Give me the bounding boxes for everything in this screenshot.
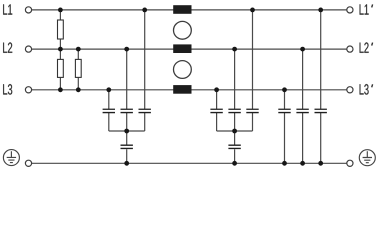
resistor R2 between L2 and L3 <box>58 59 64 77</box>
wire capacitor C11 column from L1 to ground <box>320 10 322 163</box>
label L3 <box>3 84 12 95</box>
wire star-point bus group 2 <box>217 130 253 132</box>
node L3 C5 junction <box>214 87 219 92</box>
resistor R1 between L1 and L2 <box>58 20 64 39</box>
node L1 C3 junction <box>142 7 147 12</box>
wire capacitor C9 column from L3 to ground <box>284 90 286 164</box>
wire PE ground bus horizontal <box>32 162 347 164</box>
wire resistor column x=60 from L1 to L3 <box>59 10 61 90</box>
node L1 resistor junction <box>58 7 63 12</box>
capacitor C4 plates <box>121 145 133 148</box>
node L3 R2 junction <box>58 87 63 92</box>
wire capacitor C7 column from L1 <box>252 10 254 131</box>
terminal L2' right <box>347 46 353 52</box>
node L2 C10 junction <box>300 47 305 52</box>
node L3 R3 junction <box>76 87 81 92</box>
node L2 C2 junction <box>124 47 129 52</box>
terminal PE left <box>25 160 31 166</box>
node ground C8 junction <box>232 161 237 166</box>
node ground C4 junction <box>124 161 129 166</box>
node star point group 1 <box>124 129 129 134</box>
label L1 <box>3 4 12 14</box>
capacitor C3 plates <box>139 109 151 112</box>
choke winding L3 phase <box>173 85 191 94</box>
node L1 C11 junction <box>318 7 323 12</box>
terminal L3' right <box>347 87 353 93</box>
choke core circle upper <box>174 21 192 39</box>
wire capacitor C2 column from L2 <box>126 49 128 131</box>
terminal L2 left <box>25 46 31 52</box>
node L2 R1 junction <box>58 47 63 52</box>
resistor R3 between L2 and L3 <box>75 59 81 77</box>
wire capacitor C4 column to ground <box>126 131 128 163</box>
node L3 C9 junction <box>282 87 287 92</box>
wire capacitor C8 column to ground <box>234 131 236 163</box>
wire capacitor C10 column from L2 to ground <box>302 49 304 163</box>
node ground C11 junction <box>318 161 323 166</box>
node L2 C6 junction <box>232 47 237 52</box>
wire capacitor C5 column from L3 <box>216 90 218 131</box>
label L3' <box>360 84 373 95</box>
ground symbol PE left <box>3 150 19 166</box>
label L2 <box>3 42 12 52</box>
capacitor C2 plates <box>121 109 133 112</box>
node L1 C7 junction <box>250 7 255 12</box>
wire resistor column x=78 from L2 to L3 <box>77 49 79 90</box>
label L2' <box>360 42 373 52</box>
capacitor C6 plates <box>228 109 240 112</box>
choke winding L2 phase <box>173 44 191 53</box>
node ground C10 junction <box>300 161 305 166</box>
terminal L1 left <box>25 7 31 13</box>
capacitor C1 plates <box>103 109 115 112</box>
wire capacitor C3 column from L1 <box>144 10 146 131</box>
wire capacitor C6 column from L2 <box>234 49 236 131</box>
capacitor C8 plates <box>228 145 240 148</box>
terminal PE' right <box>347 160 353 166</box>
node ground C9 junction <box>282 161 287 166</box>
wire star-point bus group 1 <box>109 130 145 132</box>
wire capacitor C1 column from L3 <box>108 90 110 131</box>
capacitor C10 plates <box>296 109 308 112</box>
capacitor C9 plates <box>278 109 290 112</box>
wire L1 horizontal <box>32 9 347 11</box>
node L3 C1 junction <box>106 87 111 92</box>
capacitor C11 plates <box>315 109 327 112</box>
label L1' <box>360 4 373 14</box>
node star point group 2 <box>232 129 237 134</box>
terminal L3 left <box>25 87 31 93</box>
choke core circle lower <box>174 61 192 79</box>
terminal L1' right <box>347 7 353 13</box>
wire L2 horizontal <box>32 48 347 50</box>
choke winding L1 phase <box>173 5 191 14</box>
wire L3 horizontal <box>32 89 347 91</box>
node L2 R3 junction <box>76 47 81 52</box>
capacitor C7 plates <box>246 109 258 112</box>
ground symbol PE right <box>359 150 375 166</box>
capacitor C5 plates <box>210 109 222 112</box>
